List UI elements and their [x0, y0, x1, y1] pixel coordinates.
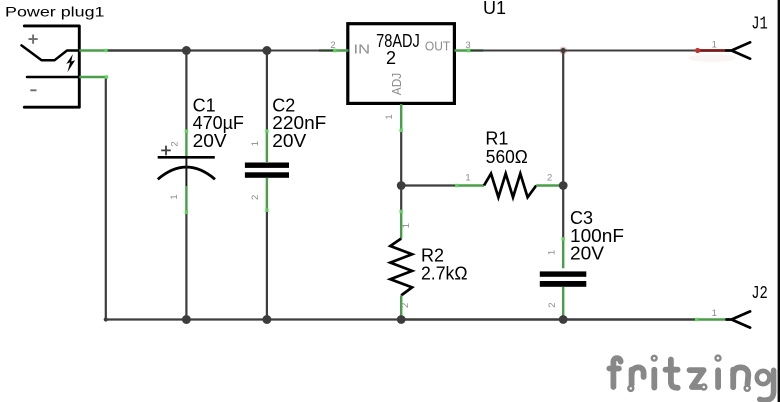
- svg-text:20V: 20V: [570, 244, 604, 264]
- label C1: [193, 96, 244, 151]
- z: [690, 370, 704, 387]
- svg-text:2: 2: [250, 195, 261, 200]
- curved bottom plate: [158, 167, 215, 179]
- wire overlap on IN pin: [319, 49, 335, 51]
- plus mark: [161, 146, 171, 156]
- svg-text:78ADJ: 78ADJ: [376, 31, 420, 51]
- label R2: [421, 246, 468, 284]
- pin OUT (3) green: [454, 49, 483, 51]
- junction dot top rail at C1: [182, 46, 191, 55]
- svg-text:OUT: OUT: [425, 40, 451, 54]
- svg-text:1: 1: [169, 194, 180, 199]
- wire: C2 column bottom: [266, 211, 268, 320]
- wire: C1 column top: [185, 51, 187, 131]
- junction dot at R1/C3 node: [559, 181, 568, 190]
- zigzag: [484, 174, 536, 198]
- svg-text:2: 2: [547, 302, 558, 307]
- pin ADJ (1) green: [400, 104, 402, 132]
- i dot 1: [651, 370, 657, 388]
- connector J2: [695, 308, 750, 328]
- capacitor C3: [540, 237, 587, 317]
- pin 1 green: [562, 238, 564, 268]
- top bar: [540, 271, 587, 276]
- svg-text:U1: U1: [483, 0, 506, 18]
- label R1: [485, 129, 527, 168]
- svg-text:1: 1: [465, 173, 470, 184]
- wire: R2 pin2 to bottom rail: [400, 316, 402, 320]
- g: [757, 371, 770, 384]
- svg-text:2.7kΩ: 2.7kΩ: [421, 263, 468, 283]
- junction dot top rail at C2: [262, 46, 271, 55]
- f: [613, 358, 620, 387]
- svg-text:1: 1: [250, 141, 261, 146]
- green pin segment: [696, 318, 727, 320]
- wire: negative rail from power plug down and across bottom to J2: [106, 77, 697, 320]
- svg-text:ADJ: ADJ: [390, 73, 404, 95]
- pin IN (2) green: [319, 49, 349, 51]
- svg-text:J2: J2: [751, 283, 768, 304]
- label C2: [272, 96, 326, 151]
- wire: vertical drop from OUT rail to R1/C3 node: [562, 51, 564, 186]
- pin 2 green: [266, 178, 268, 211]
- plus mark: [29, 35, 38, 44]
- wire: C2 column top: [266, 51, 268, 131]
- junction: corner bend at negative rail: [104, 317, 108, 321]
- svg-text:1: 1: [384, 114, 395, 119]
- n: [730, 370, 736, 388]
- svg-text:1: 1: [401, 223, 412, 228]
- capacitor C1 (polarized electrolytic): [158, 129, 215, 214]
- chevron: [727, 311, 751, 327]
- svg-text:IN: IN: [354, 42, 371, 56]
- pin 2 (sleeve) green: [79, 76, 106, 78]
- pin 2 green: [536, 184, 563, 186]
- svg-text:1: 1: [712, 39, 717, 50]
- voltage regulator U1 78ADJ: [319, 24, 483, 132]
- svg-text:2: 2: [386, 48, 396, 68]
- top plate: [158, 156, 215, 159]
- wire: C3 top from node: [562, 186, 564, 239]
- junction dots bottom rail: [182, 315, 191, 324]
- pin 2 green: [185, 131, 187, 158]
- svg-text:1: 1: [712, 308, 717, 319]
- svg-text:2: 2: [400, 303, 411, 308]
- svg-text:1: 1: [546, 250, 557, 255]
- wire: R1 node to R1 pin1: [401, 184, 456, 186]
- i dot 2: [715, 370, 721, 387]
- power plug1 connector symbol: [22, 26, 109, 107]
- r: [629, 370, 635, 385]
- wire: node to R2 pin1: [400, 186, 402, 212]
- wire overlap on OUT pin: [469, 49, 483, 51]
- svg-text:20V: 20V: [193, 131, 227, 151]
- stem: [185, 159, 187, 187]
- svg-text:560Ω: 560Ω: [486, 147, 528, 167]
- svg-text:R1: R1: [485, 129, 508, 149]
- svg-text:2: 2: [170, 141, 181, 146]
- connector J1: [688, 39, 750, 62]
- wire: U1 OUT to J1: [469, 50, 698, 52]
- wire: C1 column bottom: [185, 213, 187, 320]
- svg-text:20V: 20V: [272, 131, 306, 151]
- pin 2 green: [400, 295, 402, 318]
- chevron: [726, 42, 750, 58]
- minus mark: [30, 89, 36, 91]
- bottom bar: [540, 281, 587, 287]
- pin 2 green: [562, 287, 564, 317]
- label C3: [570, 208, 624, 264]
- resistor R1 560 ohm: [455, 173, 563, 198]
- t: [671, 360, 678, 388]
- fritzing watermark logo: [609, 356, 773, 401]
- pin 1 green: [185, 186, 187, 213]
- svg-text:Power plug1: Power plug1: [5, 4, 105, 20]
- capacitor C2: [245, 129, 289, 212]
- pin 1 green: [266, 131, 268, 162]
- pin 1 green: [400, 211, 402, 239]
- bottom bar: [245, 172, 289, 178]
- wire: U1 ADJ down to R1/R2 node: [400, 131, 402, 186]
- junction bend at OUT rail / drop: [561, 48, 566, 53]
- pin 1 (tip) green: [79, 49, 106, 51]
- svg-text:J1: J1: [751, 14, 768, 35]
- svg-text:2: 2: [547, 173, 552, 184]
- lightning bolt: [66, 54, 75, 72]
- zigzag: [390, 239, 412, 296]
- junction dot at ADJ/R1/R2 node: [397, 181, 406, 190]
- wire: top rail from power plug to U1 IN: [106, 49, 335, 52]
- unrouted red pin segment: [698, 49, 727, 52]
- resistor R2 2.7k: [390, 210, 412, 318]
- pin 1 green: [456, 184, 484, 186]
- canvas frame right edge: [778, 0, 780, 402]
- top bar: [245, 163, 289, 168]
